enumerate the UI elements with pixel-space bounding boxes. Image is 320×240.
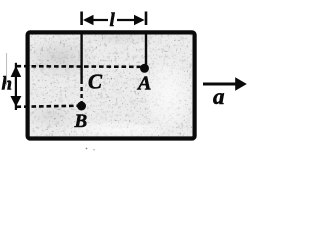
dimension l: left arrowhead	[83, 15, 94, 25]
plate interior grain texture	[28, 33, 194, 138]
svg-text:A: A	[136, 73, 151, 95]
dimension l: line segments	[92, 19, 108, 21]
svg-text:C: C	[88, 70, 103, 94]
wire: vertical dashed line from C level down to B	[80, 87, 82, 102]
wire: extension tick above plate, right (x=146)	[145, 12, 148, 26]
wire: vertical line from top edge to A	[145, 32, 147, 65]
node B (filled dot)	[77, 102, 86, 111]
acceleration arrow a: shaft	[203, 83, 237, 86]
svg-text:B: B	[74, 111, 88, 132]
plate interior fill	[28, 33, 194, 138]
node A (filled dot)	[140, 64, 149, 73]
wire: dashed horizontal line to B	[17, 106, 78, 107]
svg-text:l: l	[110, 10, 116, 31]
svg-text:a: a	[213, 84, 225, 109]
wire: vertical line from top edge to C (solid part)	[80, 32, 82, 84]
dimension l: right arrowhead	[134, 15, 145, 25]
dimension h: vertical line with overshoot	[15, 63, 17, 110]
plate border	[28, 32, 195, 138]
scan artifact faint line at far left	[6, 53, 8, 85]
wire: dashed horizontal line through C to A	[17, 65, 141, 68]
acceleration arrow a: head	[235, 77, 247, 91]
dimension h: top arrowhead (up)	[11, 66, 22, 77]
scan speck below plate 2	[93, 149, 94, 150]
dimension h: bottom arrowhead (down)	[10, 96, 21, 107]
wire: extension tick above plate, left (x=81.5)	[80, 12, 83, 26]
scan speck below plate	[86, 148, 88, 150]
